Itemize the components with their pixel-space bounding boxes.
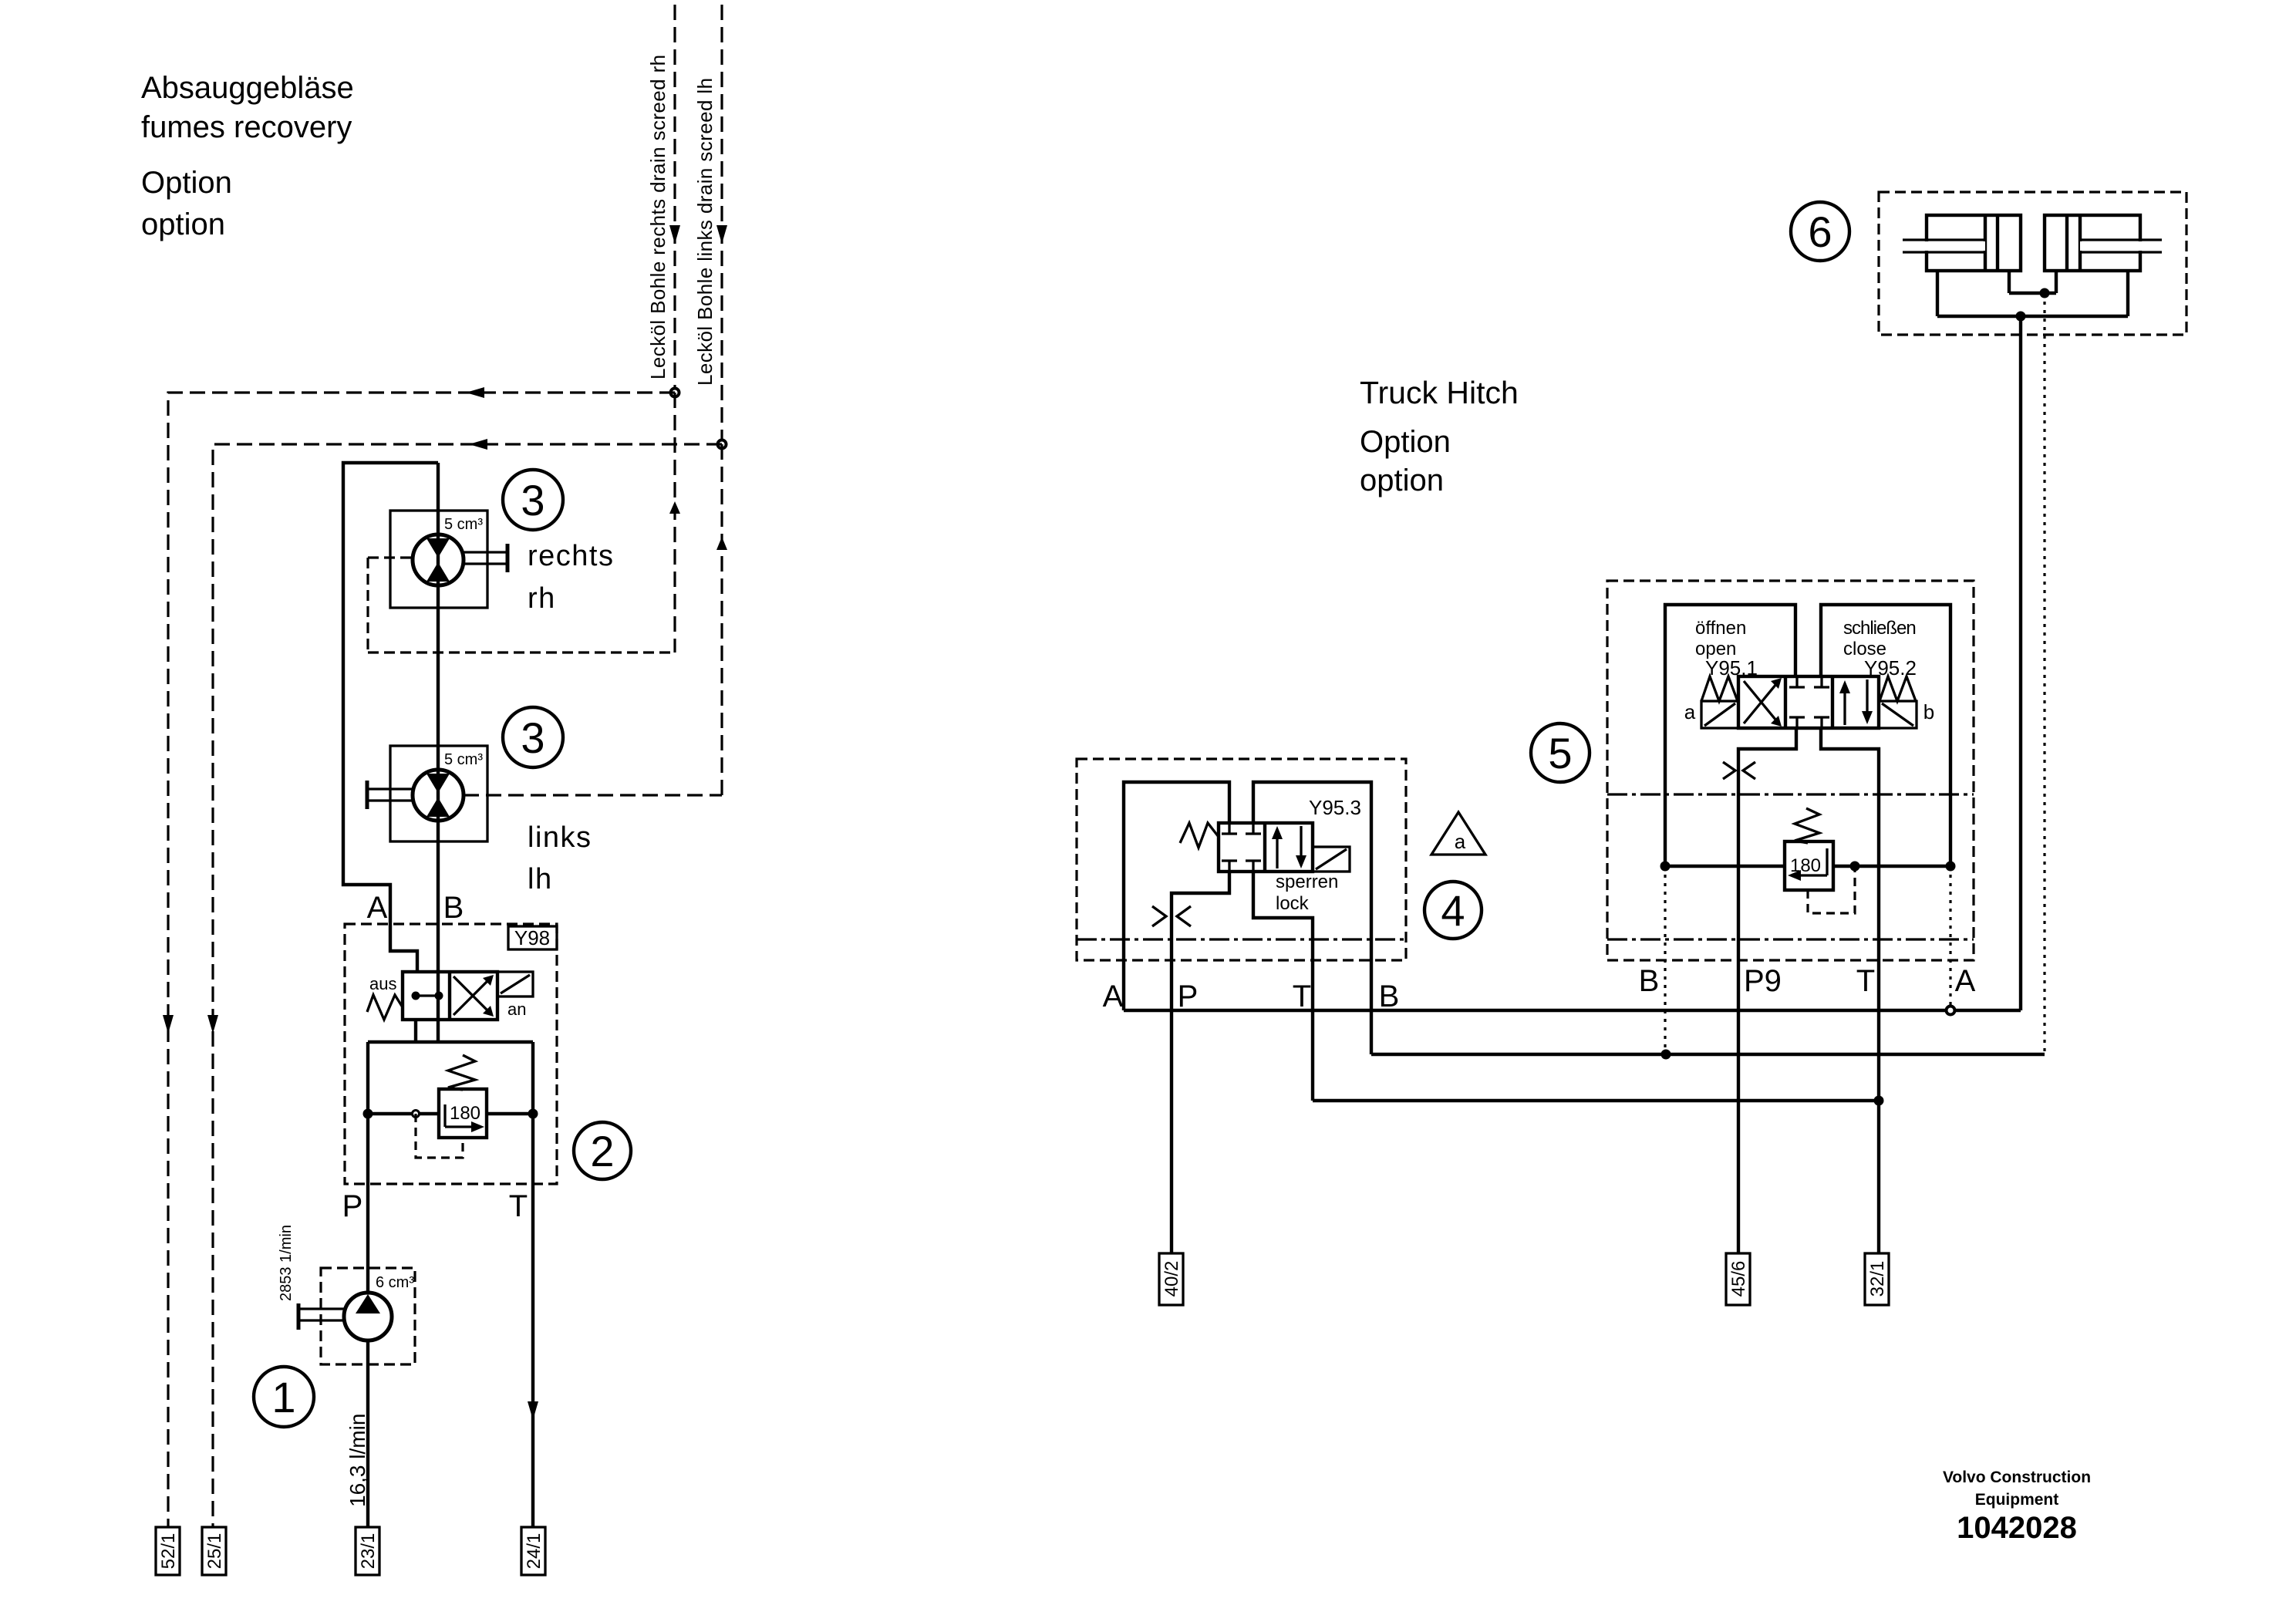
- callout circle 5: [1531, 723, 1590, 782]
- wire: A rail: [1124, 1007, 2021, 1015]
- labels öffnen open Y95.1: [1695, 618, 1758, 679]
- svg-text:rechts: rechts: [528, 540, 614, 572]
- svg-text:P: P: [342, 1189, 363, 1223]
- svg-text:lock: lock: [1276, 893, 1310, 914]
- svg-text:Y95.3: Y95.3: [1309, 796, 1361, 819]
- svg-text:5: 5: [1548, 729, 1572, 777]
- svg-text:A: A: [1955, 964, 1976, 998]
- title Truck Hitch: [1360, 375, 1519, 497]
- spring b of valve 5: [1880, 676, 1916, 701]
- wire: drain horizontal lh to tag 25/1: [207, 439, 722, 1527]
- solenoid of Y98: [497, 972, 533, 1019]
- solenoid of valve Y95.3: [1313, 847, 1350, 872]
- motor 3 upper (rechts): [368, 511, 675, 653]
- svg-text:a: a: [1684, 700, 1696, 723]
- pilot line dashed (left relief): [416, 1114, 463, 1158]
- tag 52/1: [156, 1527, 180, 1575]
- svg-text:sperren: sperren: [1276, 872, 1338, 892]
- svg-text:6: 6: [1808, 207, 1832, 256]
- tag 32/1: [1865, 1253, 1889, 1305]
- svg-text:24/1: 24/1: [524, 1533, 544, 1570]
- tag Y98: [508, 926, 557, 949]
- svg-text:25/1: 25/1: [204, 1533, 225, 1570]
- cylinder assembly 6 dashed enclosure: [1879, 192, 2186, 335]
- spring a of valve 5: [1701, 676, 1738, 701]
- tag 40/2: [1159, 1253, 1183, 1305]
- solenoid b of valve 5: [1879, 700, 1934, 728]
- svg-text:option: option: [141, 207, 225, 241]
- svg-text:32/1: 32/1: [1867, 1261, 1888, 1297]
- callout circle 4: [1424, 882, 1482, 939]
- wire: B rail: [1371, 1050, 2045, 1060]
- solenoid a of valve 5: [1684, 700, 1738, 728]
- svg-text:52/1: 52/1: [158, 1533, 179, 1570]
- svg-text:Lecköl Bohle links drain scre: Lecköl Bohle links drain screed lh: [693, 78, 716, 386]
- title Absauggebläse / fumes recovery: [141, 71, 354, 241]
- label rechts / rh: [528, 540, 614, 615]
- wire: B line through motors to valve: [437, 463, 440, 1042]
- callout circle 3 upper: [503, 470, 563, 530]
- svg-text:Y95.2: Y95.2: [1864, 656, 1917, 679]
- svg-text:A: A: [1103, 980, 1124, 1013]
- relief valve 180 (left): [439, 1055, 487, 1138]
- svg-text:Equipment: Equipment: [1975, 1491, 2059, 1509]
- wire: valve 4 P line to tag 40/2: [1172, 872, 1229, 1253]
- svg-text:schließen: schließen: [1843, 618, 1916, 639]
- svg-text:P: P: [1178, 980, 1199, 1013]
- spring of valve Y95.3: [1180, 823, 1219, 848]
- svg-text:16,3 l/min: 16,3 l/min: [346, 1414, 369, 1507]
- valve Y95.1/Y95.2 body: [1738, 676, 1879, 728]
- svg-text:1: 1: [271, 1373, 295, 1421]
- tag 45/6: [1726, 1253, 1750, 1305]
- svg-text:T: T: [1856, 964, 1875, 998]
- valve block 2 dashed enclosure: [345, 924, 557, 1184]
- pump 1: [298, 1268, 415, 1364]
- svg-text:1042028: 1042028: [1957, 1511, 2077, 1545]
- svg-text:P9: P9: [1744, 964, 1782, 998]
- tag 25/1: [202, 1527, 226, 1575]
- dash-dot plate lines of valve 5: [1607, 794, 1974, 939]
- svg-text:Volvo Construction: Volvo Construction: [1943, 1469, 2091, 1486]
- valve 4 dashed enclosure: [1077, 759, 1406, 960]
- valve Y98 body: [403, 972, 497, 1020]
- wire: T rail: [1313, 1096, 1884, 1106]
- svg-text:B: B: [1639, 964, 1660, 998]
- callout circle 6: [1791, 202, 1849, 261]
- motor 3 lower (links): [367, 746, 722, 841]
- wire: drain horizontal rh to tag 52/1: [163, 387, 675, 1527]
- wire: valve 4 left U (A port): [1124, 782, 1229, 1010]
- wire: cylinder dotted line to B rail: [2043, 293, 2045, 1054]
- svg-text:40/2: 40/2: [1161, 1261, 1182, 1297]
- pilot line dashed (valve 5 relief): [1808, 866, 1855, 913]
- wire: P line valve to pump: [366, 1042, 369, 1293]
- svg-text:fumes recovery: fumes recovery: [141, 110, 352, 144]
- wire: valve 5 P9 line to tag 45/6: [1738, 728, 1796, 1253]
- svg-text:5 cm³: 5 cm³: [444, 516, 483, 533]
- wire: B dotted below box: [1664, 866, 1666, 1054]
- svg-text:B: B: [1379, 980, 1400, 1013]
- svg-text:option: option: [1360, 464, 1444, 497]
- relief valve 180 (valve 5): [1785, 808, 1833, 890]
- svg-text:3: 3: [521, 713, 544, 762]
- wire: valve 4 right U (B port): [1253, 782, 1371, 1054]
- callout circle 3 lower: [503, 707, 563, 767]
- cylinder right: [2045, 215, 2162, 271]
- wire: valve A stub to rail: [414, 1020, 417, 1042]
- callout circle 1: [254, 1367, 314, 1427]
- spring of Y98: [367, 974, 403, 1020]
- svg-text:an: an: [507, 1000, 526, 1019]
- wire: relief rail (valve 5): [1660, 862, 1956, 872]
- wire: A line from motors to valve Y98: [343, 463, 438, 973]
- wire: drain line rh (vertical dashed x=875): [669, 5, 680, 653]
- wire: P line pump to tag 23/1: [366, 1340, 369, 1527]
- svg-text:45/6: 45/6: [1728, 1261, 1749, 1297]
- svg-text:rh: rh: [528, 582, 556, 615]
- wire: cylinder line to A rail: [2019, 316, 2022, 1010]
- svg-text:23/1: 23/1: [358, 1533, 379, 1570]
- svg-text:Option: Option: [141, 166, 232, 200]
- wire: P/T rail below valve: [368, 1040, 533, 1044]
- valve 5 dashed enclosure: [1607, 581, 1974, 960]
- svg-text:3: 3: [521, 476, 544, 524]
- dash-dot plate line of valve 4: [1077, 938, 1406, 940]
- wire: T line to tag 24/1: [528, 1042, 538, 1527]
- svg-text:Y95.1: Y95.1: [1705, 656, 1758, 679]
- wire: A dotted below box: [1949, 866, 1951, 1010]
- svg-text:2: 2: [590, 1127, 614, 1175]
- port labels valve 4: [1103, 980, 1400, 1013]
- svg-text:öffnen: öffnen: [1695, 618, 1746, 639]
- label sperren lock: [1276, 872, 1338, 914]
- tag 24/1: [521, 1527, 545, 1575]
- svg-text:Y98: Y98: [514, 926, 550, 949]
- svg-text:Option: Option: [1360, 425, 1451, 459]
- svg-text:180: 180: [450, 1103, 480, 1124]
- wire: relief rail left: [363, 1109, 538, 1119]
- svg-text:A: A: [367, 891, 388, 925]
- port labels valve 5: [1639, 964, 1976, 998]
- wire: drain line lh (vertical dashed x=936): [716, 5, 727, 795]
- svg-text:links: links: [528, 821, 592, 854]
- svg-text:4: 4: [1441, 886, 1465, 935]
- wire: valve 4 T line: [1253, 872, 1313, 1101]
- valve Y95.3 body: [1219, 823, 1313, 872]
- wire: valve 5 left U (B port): [1665, 605, 1795, 866]
- svg-text:aus: aus: [369, 974, 396, 993]
- svg-text:b: b: [1923, 700, 1934, 723]
- svg-text:5 cm³: 5 cm³: [444, 751, 483, 768]
- wire: cylinder outer ports: [1937, 271, 2128, 322]
- coupling on P9: [1723, 762, 1755, 779]
- callout circle 2: [574, 1122, 631, 1179]
- label links / lh: [528, 821, 592, 895]
- wire: valve 5 right U (A port): [1821, 605, 1950, 866]
- svg-text:Truck Hitch: Truck Hitch: [1360, 375, 1519, 410]
- svg-text:T: T: [1293, 980, 1311, 1013]
- svg-text:B: B: [443, 891, 464, 925]
- wire: cylinder rod-side ports: [2009, 271, 2056, 298]
- svg-text:a: a: [1455, 830, 1466, 853]
- svg-text:T: T: [509, 1189, 528, 1223]
- svg-text:lh: lh: [528, 863, 553, 895]
- marker triangle a: [1431, 812, 1485, 855]
- svg-text:2853 1/min: 2853 1/min: [278, 1225, 295, 1301]
- tag 23/1: [356, 1527, 379, 1575]
- coupling on P: [1152, 906, 1191, 926]
- wire: valve 5 T line: [1821, 728, 1879, 1253]
- svg-text:Absauggebläse: Absauggebläse: [141, 71, 354, 105]
- footer Volvo Construction Equipment 1042028: [1943, 1469, 2091, 1545]
- svg-text:Lecköl Bohle rechts drain scr: Lecköl Bohle rechts drain screed rh: [646, 54, 669, 379]
- svg-text:6 cm³: 6 cm³: [376, 1274, 414, 1291]
- labels schließen close Y95.2: [1843, 618, 1917, 679]
- cylinder left: [1903, 215, 2021, 271]
